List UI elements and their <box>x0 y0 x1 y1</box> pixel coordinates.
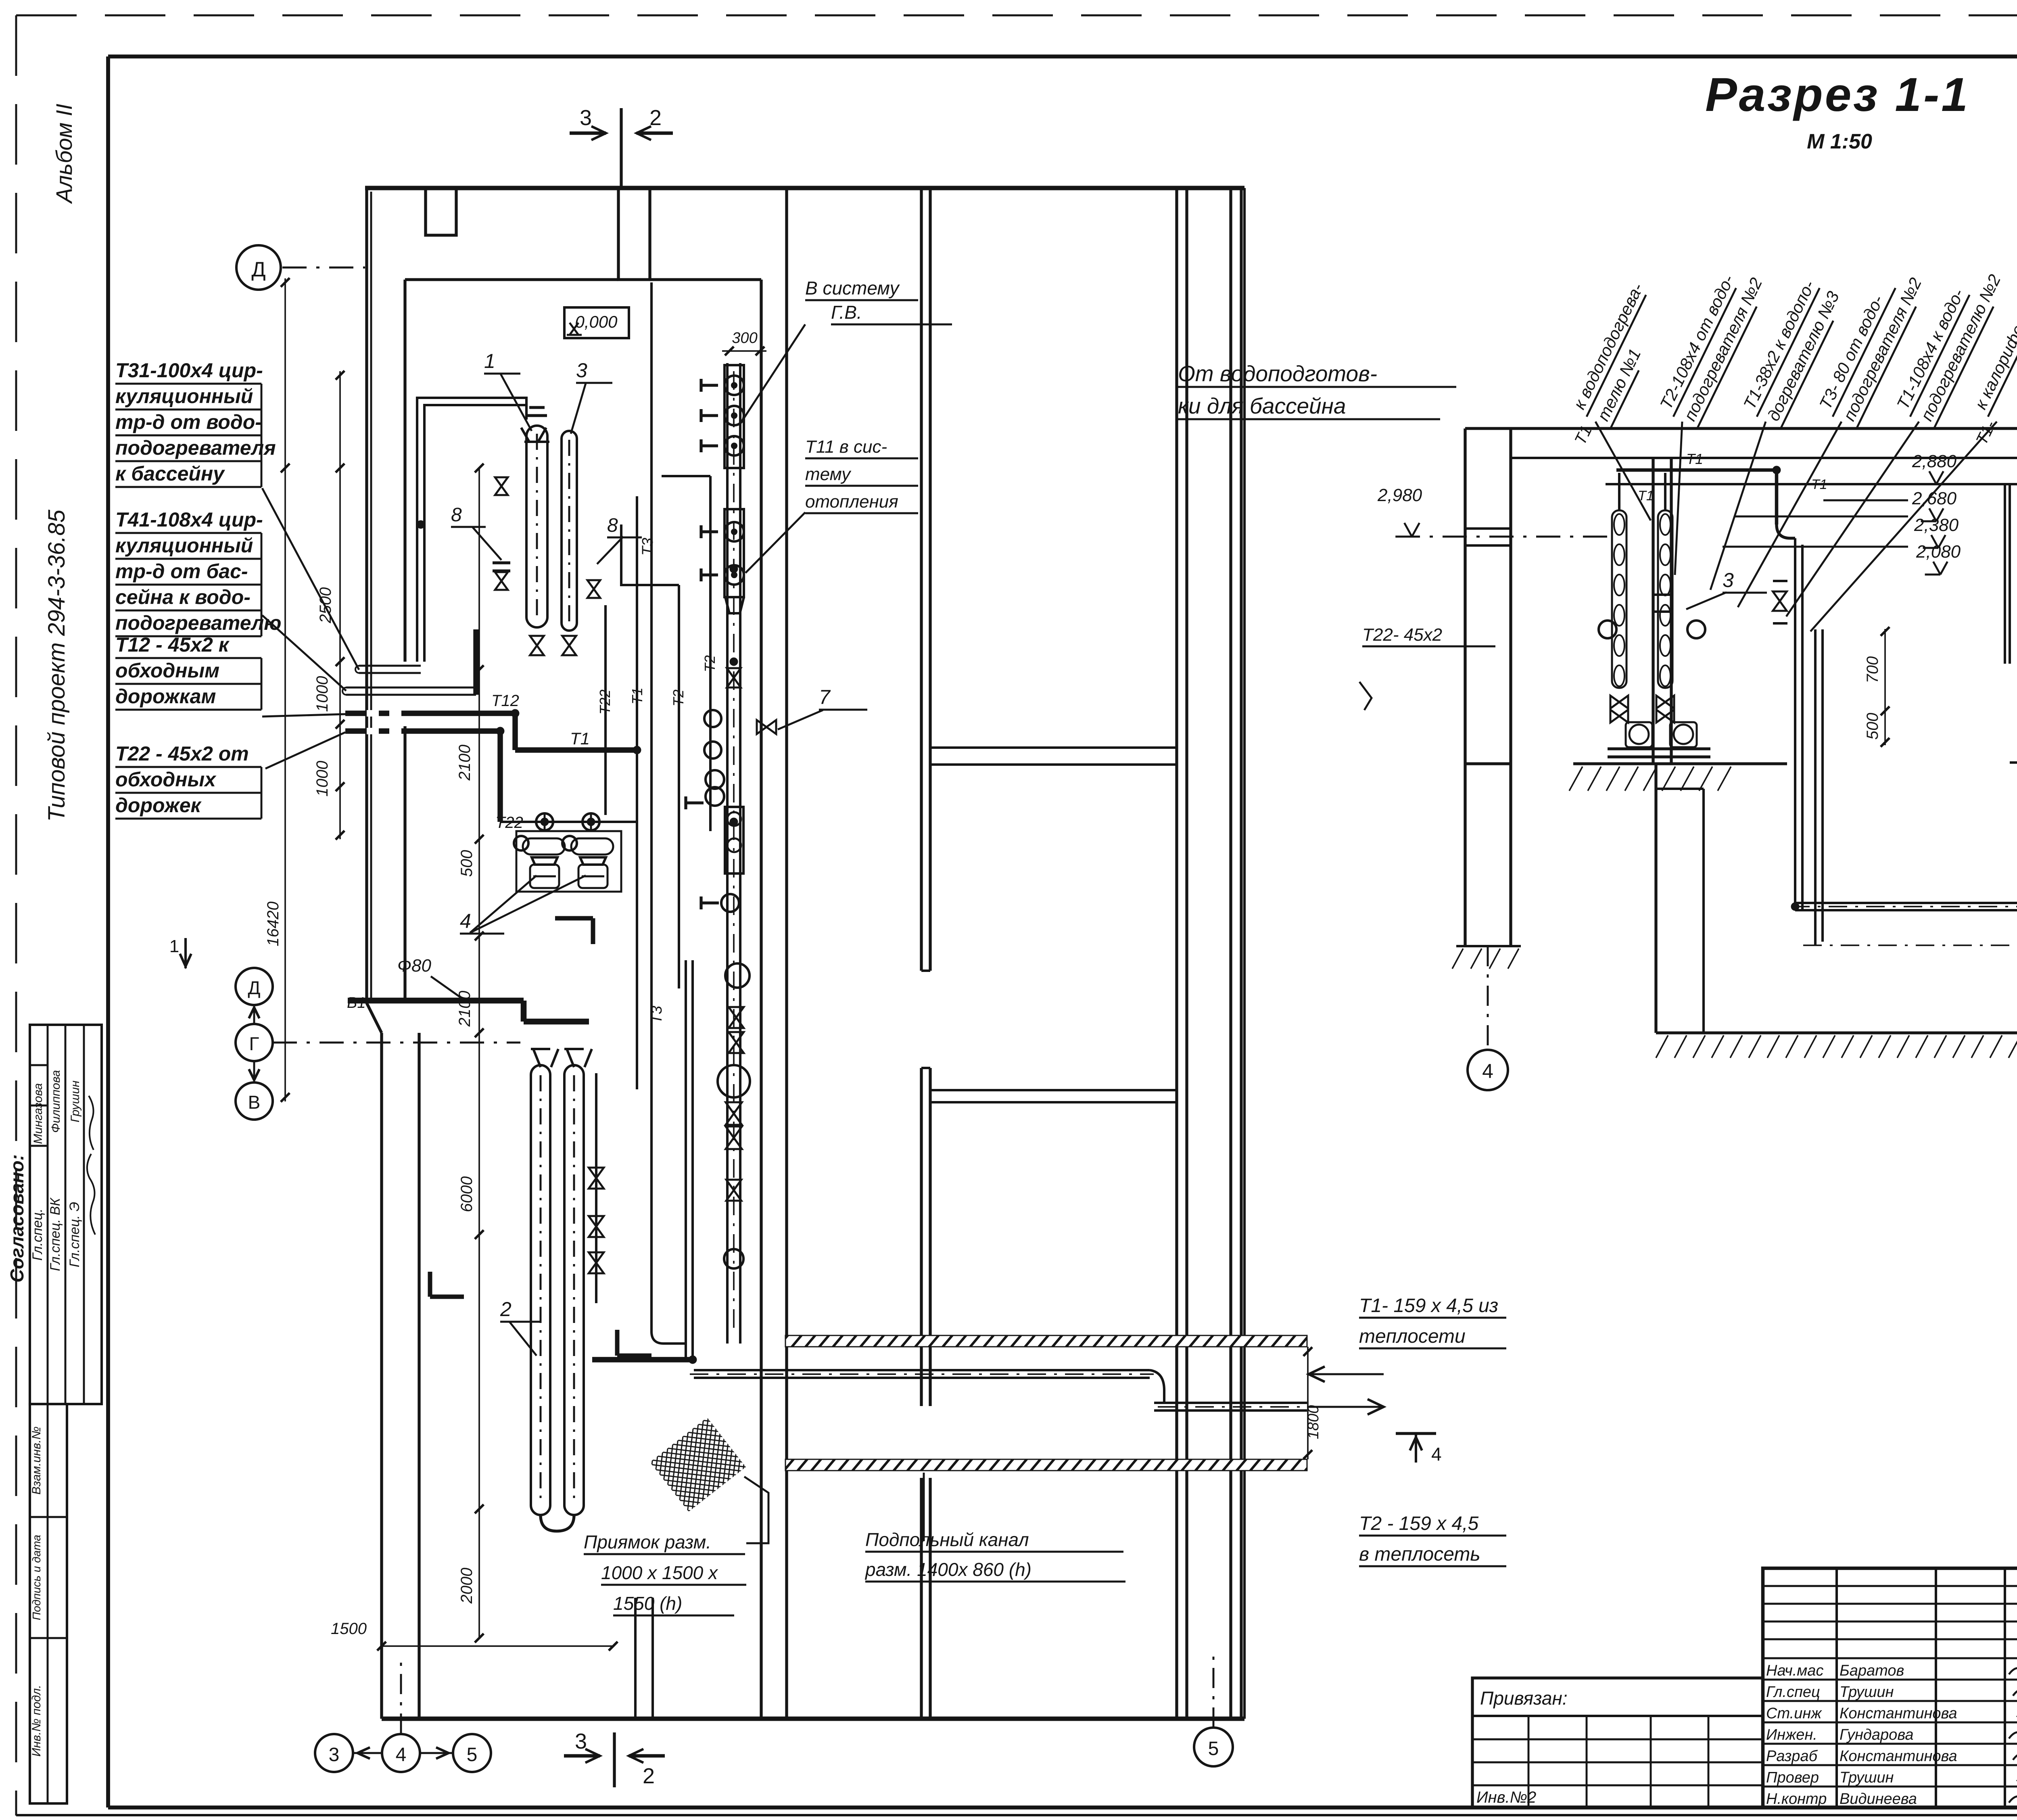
svg-text:тр-д от водо-: тр-д от водо- <box>115 411 262 433</box>
svg-text:1500: 1500 <box>331 1620 367 1638</box>
svg-text:Филиппова: Филиппова <box>49 1070 63 1133</box>
svg-text:Т41-108х4 цир-: Т41-108х4 цир- <box>115 508 263 531</box>
svg-text:Т22- 45х2: Т22- 45х2 <box>1362 625 1442 645</box>
svg-text:В систему: В систему <box>805 278 900 299</box>
svg-text:Баратов: Баратов <box>1840 1662 1904 1679</box>
svg-text:4: 4 <box>1482 1060 1493 1082</box>
svg-text:Гундарова: Гундарова <box>1840 1726 1913 1743</box>
svg-text:Мингазова: Мингазова <box>31 1083 45 1144</box>
svg-text:Т22 - 45х2 от: Т22 - 45х2 от <box>115 742 249 765</box>
svg-text:Трушин: Трушин <box>1840 1684 1894 1701</box>
svg-text:разм. 1400х 860 (h): разм. 1400х 860 (h) <box>864 1559 1031 1580</box>
svg-text:подогревателю: подогревателю <box>115 612 281 634</box>
svg-text:8: 8 <box>451 504 462 526</box>
svg-text:Т3: Т3 <box>648 1006 665 1024</box>
svg-text:Подпольный канал: Подпольный канал <box>865 1529 1029 1550</box>
svg-text:Взам.инв.№: Взам.инв.№ <box>30 1427 43 1495</box>
svg-text:Инв.№ подл.: Инв.№ подл. <box>30 1685 43 1757</box>
svg-text:Ф80: Ф80 <box>397 956 431 976</box>
svg-text:От водоподготов-: От водоподготов- <box>1178 361 1377 386</box>
svg-text:0,000: 0,000 <box>575 312 618 331</box>
svg-text:1000: 1000 <box>313 676 331 712</box>
svg-text:Привязан:: Привязан: <box>1480 1688 1568 1709</box>
svg-text:8: 8 <box>607 515 618 536</box>
svg-text:3: 3 <box>329 1744 340 1766</box>
svg-text:Т1: Т1 <box>1811 477 1827 492</box>
svg-text:В1: В1 <box>347 995 365 1011</box>
svg-text:Т1: Т1 <box>629 687 645 704</box>
svg-text:Гл.спец.: Гл.спец. <box>30 1208 45 1260</box>
svg-text:Разраб: Разраб <box>1766 1748 1818 1765</box>
svg-text:Согласовано:: Согласовано: <box>6 1154 27 1283</box>
svg-text:1: 1 <box>169 936 179 956</box>
svg-text:теплосети: теплосети <box>1359 1326 1466 1347</box>
svg-text:4: 4 <box>460 910 471 932</box>
svg-text:Гл.спец. Э: Гл.спец. Э <box>67 1202 82 1267</box>
svg-text:куляционный: куляционный <box>115 534 253 557</box>
svg-text:подогревателя: подогревателя <box>115 437 276 459</box>
svg-text:В: В <box>248 1092 261 1113</box>
svg-text:7: 7 <box>819 686 831 708</box>
svg-text:3: 3 <box>576 359 587 382</box>
svg-text:16420: 16420 <box>264 901 282 946</box>
svg-text:Константинова: Константинова <box>1840 1748 1957 1765</box>
svg-text:4: 4 <box>1431 1444 1442 1465</box>
svg-text:Т12 - 45х2 к: Т12 - 45х2 к <box>115 633 230 656</box>
svg-text:отопления: отопления <box>805 492 898 512</box>
svg-text:700: 700 <box>1864 656 1881 683</box>
svg-text:Подпись и дата: Подпись и дата <box>30 1535 43 1620</box>
svg-text:Альбом II: Альбом II <box>51 104 77 204</box>
svg-text:1000: 1000 <box>313 761 331 797</box>
svg-text:Видинеева: Видинеева <box>1840 1791 1917 1807</box>
svg-text:2: 2 <box>649 106 662 130</box>
svg-text:2,080: 2,080 <box>1916 542 1961 562</box>
svg-text:Гл.спец: Гл.спец <box>1766 1684 1820 1701</box>
svg-text:дорожек: дорожек <box>115 794 202 817</box>
svg-text:Т3: Т3 <box>639 538 656 556</box>
svg-text:к бассейну: к бассейну <box>115 462 225 485</box>
svg-text:в теплосеть: в теплосеть <box>1359 1544 1480 1565</box>
svg-text:Т31-100х4 цир-: Т31-100х4 цир- <box>115 359 263 382</box>
svg-text:Т22: Т22 <box>597 690 613 715</box>
svg-text:Г: Г <box>249 1033 259 1054</box>
svg-text:2: 2 <box>643 1764 655 1788</box>
svg-text:Инв.№2: Инв.№2 <box>1476 1789 1536 1806</box>
svg-text:Приямок разм.: Приямок разм. <box>584 1532 711 1553</box>
svg-text:дорожкам: дорожкам <box>115 685 216 708</box>
svg-text:3: 3 <box>580 106 592 130</box>
svg-text:Т1: Т1 <box>1686 451 1703 467</box>
svg-text:2,380: 2,380 <box>1914 515 1959 535</box>
svg-text:3: 3 <box>1723 569 1734 591</box>
svg-text:ки для бассейна: ки для бассейна <box>1178 393 1346 418</box>
svg-text:Типовой проект 294-3-36.85: Типовой проект 294-3-36.85 <box>44 510 70 822</box>
svg-text:Т1- 159 х 4,5 из: Т1- 159 х 4,5 из <box>1359 1295 1498 1316</box>
svg-text:2: 2 <box>500 1298 512 1321</box>
svg-text:Н.контр: Н.контр <box>1766 1791 1827 1807</box>
svg-text:Константинова: Константинова <box>1840 1705 1957 1722</box>
svg-text:тр-д от бас-: тр-д от бас- <box>115 560 248 583</box>
svg-text:1550 (h): 1550 (h) <box>613 1593 682 1614</box>
svg-text:Т12: Т12 <box>491 692 519 710</box>
svg-text:Разрез 1-1: Разрез 1-1 <box>1705 68 1970 121</box>
svg-text:Провер: Провер <box>1766 1769 1819 1786</box>
svg-text:1800: 1800 <box>1305 1405 1322 1440</box>
svg-text:500: 500 <box>458 850 476 877</box>
svg-text:Г.В.: Г.В. <box>831 302 862 323</box>
svg-text:500: 500 <box>1864 713 1881 740</box>
svg-text:5: 5 <box>467 1744 478 1766</box>
svg-text:куляционный: куляционный <box>115 385 253 407</box>
svg-text:М 1:50: М 1:50 <box>1807 130 1872 153</box>
svg-text:Ст.инж: Ст.инж <box>1766 1705 1822 1722</box>
svg-text:5: 5 <box>1208 1738 1219 1759</box>
svg-text:2100: 2100 <box>456 745 474 781</box>
svg-text:обходных: обходных <box>115 768 217 791</box>
svg-text:Т2 - 159 х 4,5: Т2 - 159 х 4,5 <box>1359 1513 1478 1534</box>
svg-text:Нач.мас: Нач.мас <box>1766 1662 1823 1679</box>
svg-text:Т2: Т2 <box>702 655 718 672</box>
svg-text:3: 3 <box>575 1729 587 1753</box>
svg-text:Т2: Т2 <box>670 690 687 706</box>
svg-text:Трушин: Трушин <box>1840 1769 1894 1786</box>
svg-text:2,880: 2,880 <box>1912 451 1957 471</box>
svg-text:2000: 2000 <box>458 1568 476 1604</box>
svg-text:Д: Д <box>248 977 260 998</box>
svg-text:6000: 6000 <box>458 1176 476 1212</box>
svg-text:Инжен.: Инжен. <box>1766 1726 1817 1743</box>
svg-text:1: 1 <box>484 350 495 372</box>
svg-text:2500: 2500 <box>317 587 334 624</box>
svg-text:Грушин: Грушин <box>69 1080 82 1122</box>
svg-text:обходным: обходным <box>115 659 219 682</box>
svg-text:Т22: Т22 <box>495 814 523 832</box>
svg-text:Т1: Т1 <box>570 729 590 748</box>
svg-text:Гл.спец. ВК: Гл.спец. ВК <box>48 1197 63 1271</box>
svg-text:1000 х 1500 х: 1000 х 1500 х <box>601 1562 718 1583</box>
svg-text:2,980: 2,980 <box>1377 485 1422 505</box>
svg-text:300: 300 <box>732 330 757 347</box>
svg-text:4: 4 <box>396 1744 407 1766</box>
svg-text:Д: Д <box>251 258 265 281</box>
svg-text:Т11 в сис-: Т11 в сис- <box>805 437 887 457</box>
svg-text:сейна к водо-: сейна к водо- <box>115 586 251 608</box>
svg-text:тему: тему <box>805 464 852 484</box>
